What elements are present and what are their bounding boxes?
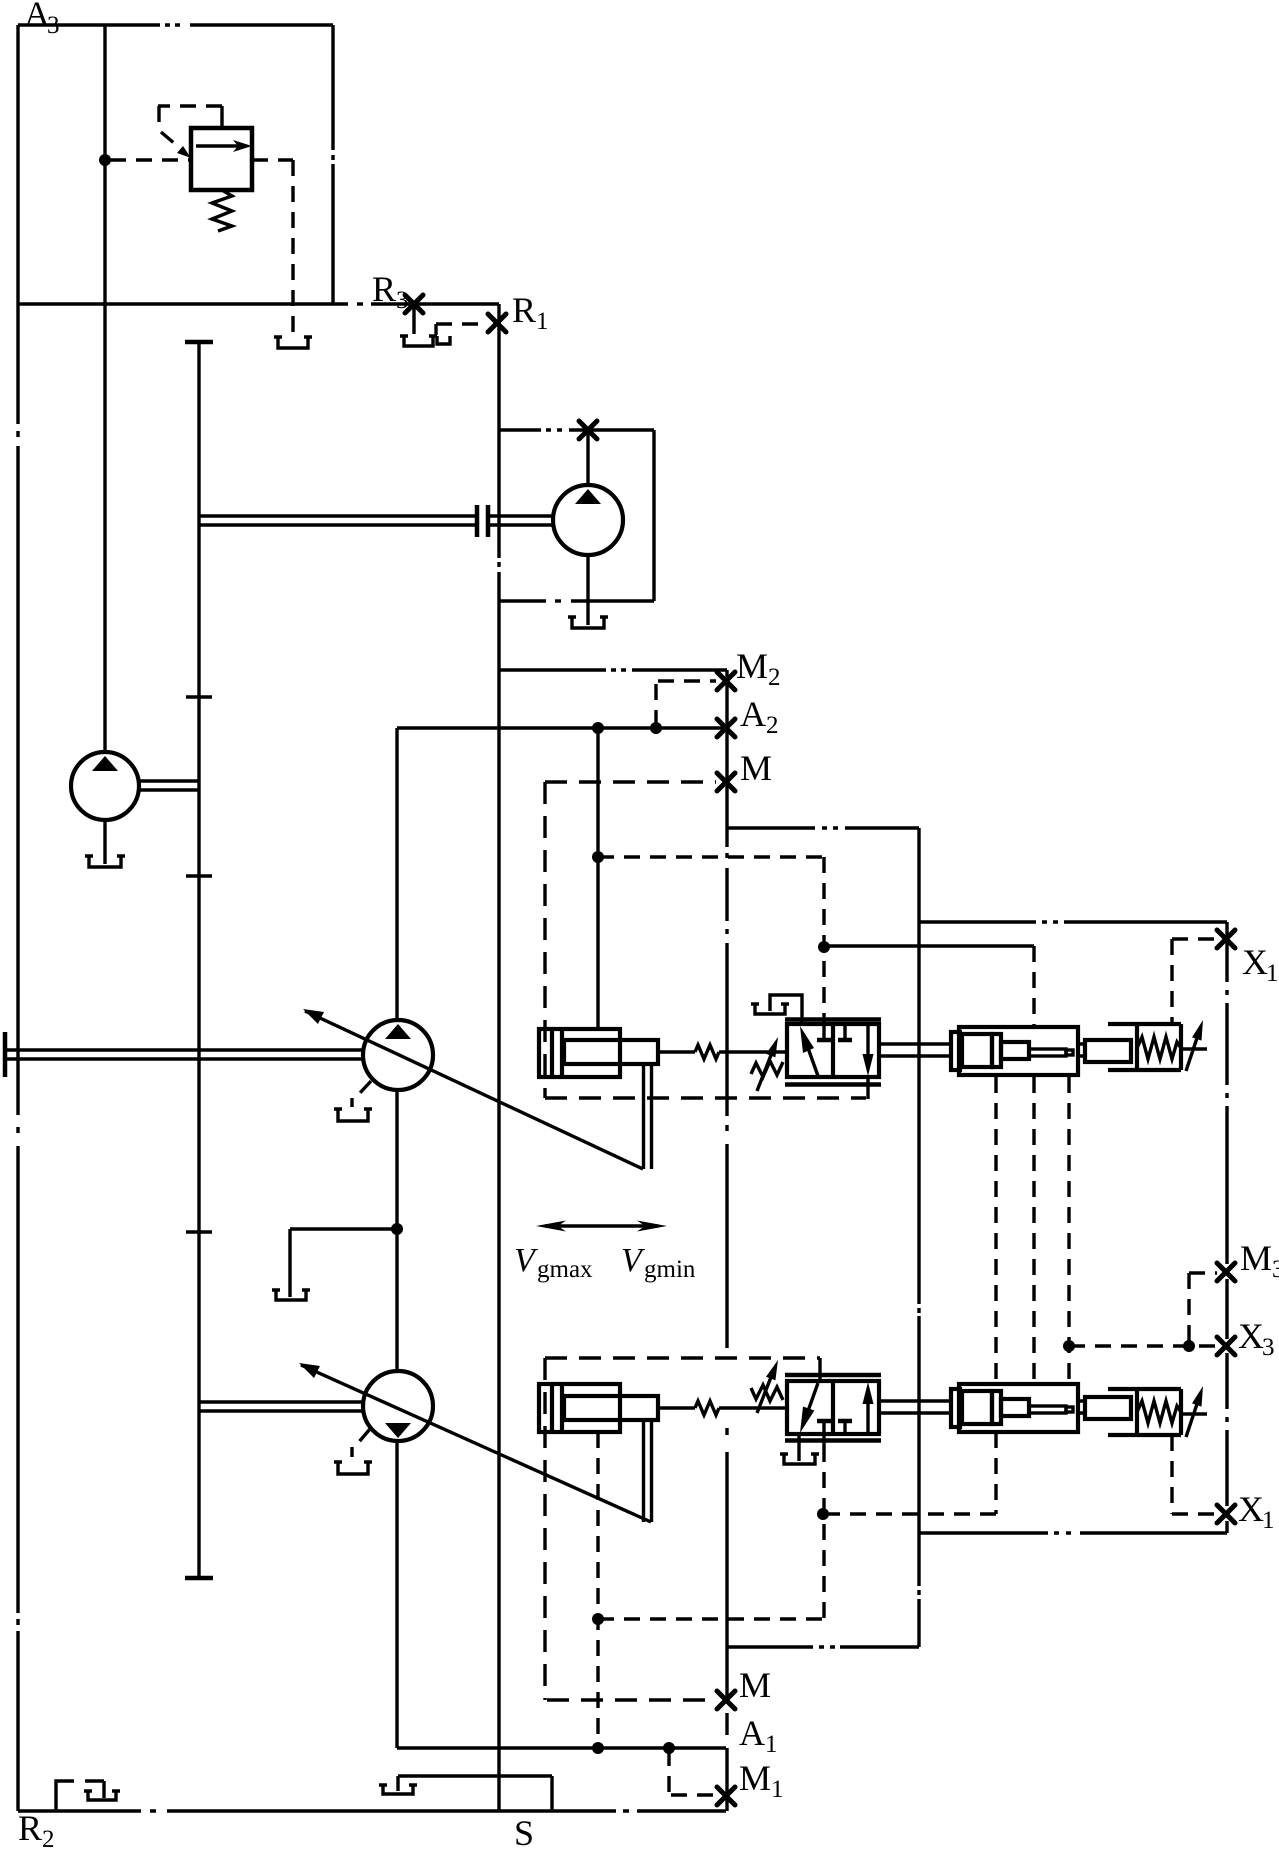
pilot cylinder PC1 rod [1029,1049,1066,1056]
feedback link CY1 double line [644,1064,652,1169]
node junction on pump column [391,1223,403,1235]
spring between CY2 and valve V2 [695,1401,719,1415]
tank T5 pump P1 drain [338,1109,368,1121]
pump P3 charge pump circle [71,752,139,820]
servo cylinder CY2 piston seals [552,1384,562,1432]
dashed X3 line y=1346 [1069,1344,1217,1347]
svg-text:3: 3 [396,287,409,314]
dashed X1 bottom branch [1172,1435,1217,1514]
pilot cylinder PC1 left cap [951,1032,960,1070]
shaft tick 1 [186,695,212,698]
middle enclosure bottom edge y=1647 [727,1645,919,1648]
valve V1 tank arrow (down) [863,1026,874,1099]
valve V2 left spring [751,1385,783,1401]
dashed X1 top branch [1172,939,1217,1024]
valve V1 blocked stub T2 [838,1026,852,1040]
dashed box left edge x=545 [543,782,546,1700]
relief valve RV1 pilot loop [158,106,222,158]
svg-text:M: M [736,646,768,686]
servo cylinder CY2 rod [564,1396,658,1420]
pump P4 aux pump circle [553,485,623,555]
svg-text:R: R [372,269,396,309]
pilot cylinder PC1 second stage [1001,1042,1029,1059]
svg-text:3: 3 [1262,1334,1275,1361]
dashed box inner edge y=1098 [545,1096,866,1099]
svg-text:M: M [1240,1238,1272,1278]
pilot cylinder PC2 body [959,1384,1078,1432]
link rod V2 to PC2 double line [880,1401,951,1413]
wire spring to valve V2 [719,1406,787,1409]
shaft double line P3 to gear line [139,781,199,790]
wire A1 line y=1748 [397,1746,726,1749]
pump P1 variable arrow diagonal [303,1009,643,1169]
wire control pressure y=946 [824,944,1034,947]
shaft end bar top [185,340,213,345]
port cross M [717,773,735,791]
svg-text:M: M [739,1665,771,1705]
link rod PC1 to spring box double line [1078,1044,1085,1056]
pilot cylinder PC2 piston plates [962,1391,992,1424]
valve V1 spool arrow [800,1026,818,1076]
dashed pilot drop to valve V1 [822,857,825,1013]
shaft double line to pump P2 [199,1402,364,1411]
svg-text:M: M [740,748,772,788]
junction dots [592,722,604,734]
horizontal boundary y=304 [18,302,499,305]
pump P3 flow triangle [92,756,118,771]
svg-text:R: R [512,290,536,330]
svg-text:1: 1 [1262,1507,1275,1534]
pump P1 case drain dashed [352,1081,371,1107]
wire CY1 rod to spring [658,1050,695,1053]
port cross M lower [717,1691,735,1709]
right enclosure top edge y=922 [919,920,1227,923]
svg-text:2: 2 [42,1826,55,1851]
link rod PC2 to spring box double line [1078,1401,1085,1413]
spring box SB2 link plate [1085,1397,1131,1419]
aux pump enclosure bottom edge [499,599,654,602]
valve V2 blocked stub T2 [838,1421,852,1434]
aux pump enclosure right edge [652,430,655,601]
pump P2 variable arrow diagonal [299,1363,651,1522]
pilot cylinder PC1 piston plates [962,1034,992,1067]
node junction at relief pilot [99,154,111,166]
wire P4 suction to tank [586,555,589,625]
dashed pilot from valve V2 down [822,1446,825,1619]
servo cylinder CY1 piston seals [552,1029,562,1077]
enclosure left block top edge (phantom line) [18,23,333,26]
servo cylinder CY1 rod [564,1040,658,1064]
valve V2 adjuster arrow [757,1360,778,1413]
svg-text:R: R [18,1808,42,1848]
tank T4 below pump P4 [572,617,604,628]
port cross aux pump top [579,421,597,439]
spring box SB2 plates [1137,1389,1181,1435]
dashed drop to pilot cylinder PC1 [1032,946,1035,1027]
port cross X1 bottom [1217,1505,1235,1523]
spring box SB1 plates [1137,1024,1181,1070]
pump P2 variable displacement circle [363,1371,433,1441]
coupling bars [477,505,488,537]
wire A2 line y=728 [397,726,727,729]
dashed pilot from R1 to tank [436,324,488,335]
relief valve RV1 flow arrow [196,140,252,152]
shaft tick 2 [186,874,212,877]
valve V2 pilot stub T1 [817,1421,831,1446]
spring box SB2 rails [1108,1389,1181,1435]
dashed PC2 drain drop [994,1432,997,1514]
svg-text:gmax: gmax [537,1256,593,1283]
aux pump enclosure top edge [499,428,654,431]
pump P1 flow triangle [385,1024,411,1039]
right enclosure bottom edge y=1533 [919,1531,1227,1534]
wire dashed pilot left of RV1 [110,158,191,161]
wire cylinder feed x=598 lower dashed [596,1432,599,1748]
middle enclosure right edge x=919 [917,828,920,1647]
port cross X3 [1217,1337,1235,1355]
valve V1 body [787,1024,879,1077]
main vertical boundary x=499 [497,304,500,1811]
wire P4 outlet to port cross [586,430,589,485]
wire M dashed line y=782 (box top edge) [545,780,716,783]
svg-text:X: X [1238,1316,1264,1356]
pilot cylinder PC2 rod [1029,1406,1066,1413]
svg-text:X: X [1242,942,1268,982]
valve V2 spool arrow [800,1383,818,1433]
spring box SB2 adjuster arrow [1183,1386,1207,1437]
enclosure bottom edge y=1811 [18,1809,726,1812]
svg-text:S: S [514,1813,534,1851]
relief valve RV1 spring [212,190,232,231]
svg-text:3: 3 [1272,1256,1279,1283]
valve V2 divider [831,1381,835,1434]
S port notch [398,1776,552,1811]
valve V1 divider [831,1024,835,1077]
port cross X1 top [1217,930,1235,948]
svg-text:3: 3 [47,12,60,39]
valve V1 drain pipe to tank [770,995,802,1022]
spring box SB1 spring [1137,1037,1181,1059]
tank T2a below R3 [404,336,433,346]
tank T3 below pump P3 [89,856,121,867]
port cross R1 [488,314,506,332]
port column vertical x=727 (phantom) [725,670,728,1811]
dashed pilot line y=1514 [824,1512,996,1515]
enclosure left edge (phantom line x=18) [16,25,19,1811]
svg-text:gmin: gmin [644,1256,696,1283]
dashed inner pilot line y=1619 [598,1617,823,1620]
port cross R3 [405,295,423,313]
wire A3 riser x=105 [103,25,106,753]
pilot cylinder PC1 body [959,1027,1078,1075]
dashed pilot verticals between pilot cylinders [996,1077,1069,1384]
servo cylinder CY2 body [539,1384,620,1432]
shaft double line to aux pump coupling [199,516,477,525]
tank T8 at R2 [88,1791,116,1800]
R2 drain piping [56,1781,104,1811]
port cross M2 [717,672,735,690]
dashed inner pilot line y=857 [598,855,824,858]
tank T10 below valve V2 [784,1454,815,1464]
shaft end bar bottom [185,1576,213,1581]
spring box SB2 spring [1137,1401,1181,1423]
svg-text:1: 1 [1266,960,1279,987]
wire drain L from pump column to tank [290,1229,397,1297]
svg-text:M: M [739,1758,771,1798]
valve V2 drain pipe to tank [797,1434,800,1461]
svg-text:1: 1 [765,1731,778,1758]
tank T11 drain cup [276,1290,306,1300]
pilot cylinder PC2 left cap [951,1389,960,1427]
wire P3 suction to tank [103,820,106,864]
tank T9 above valve V1 [755,1004,785,1014]
svg-text:1: 1 [536,308,549,335]
valve V1 adjuster arrow [757,1037,778,1091]
valve V2 body [787,1381,879,1434]
tank T2b below R1 pilot [437,336,450,344]
valve V2 tank arrow (up) [863,1382,874,1434]
valve V1 top rail [785,1017,881,1022]
pump P4 flow triangle [575,489,601,504]
valve V1 left spring [751,1061,783,1077]
wire cylinder feed x=598 upper [596,728,599,1029]
top-left box right edge x=333 [331,25,334,304]
valve V1 bottom rail [785,1082,881,1087]
right enclosure right edge x=1227 (phantom) [1225,922,1228,1533]
tank T7 at S port [383,1785,413,1794]
spring box SB1 rails [1108,1024,1181,1070]
spring box SB1 link plate [1085,1040,1131,1062]
wire spring to valve V1 [719,1050,787,1053]
valve V2 top rail [785,1373,881,1378]
valve V2 bottom rail [785,1438,881,1443]
shaft double line coupling to aux pump [488,516,553,525]
pump P2 flow triangle (down) [385,1423,411,1438]
port cross A2 [717,719,735,737]
svg-text:A: A [740,694,766,734]
pump column vertical x=397 [395,728,398,1748]
feedback link CY2 double line [644,1420,652,1522]
pilot cylinder PC2 second stage [1001,1399,1029,1416]
valve V1 pilot stub T1 [817,1013,831,1040]
middle enclosure top edge y=828 [727,826,919,829]
dashed box inner edge y=1358 with drop to valve V2 [545,1358,820,1381]
wire M2 dashed branch [656,681,716,726]
svg-text:X: X [1238,1489,1264,1529]
mechanical shaft line x=199 [197,342,200,1578]
port cross M3 [1217,1263,1235,1281]
shaft tick 3 [186,1230,212,1233]
wire top manifold y=670 [499,668,727,671]
servo cylinder CY1 body [539,1029,620,1077]
port cross M1 [717,1787,735,1805]
tank T1 below RV1 drain [278,337,308,348]
svg-text:2: 2 [768,664,781,691]
link rod V1 to PC1 double line [880,1044,951,1056]
spring box SB1 adjuster arrow [1183,1020,1207,1071]
wire CY2 rod to spring [658,1406,695,1409]
pump P1 variable displacement circle [363,1020,433,1090]
svg-text:A: A [739,1713,765,1753]
svg-text:2: 2 [766,712,779,739]
relief valve RV1 body [191,128,252,190]
prime mover input shaft end bar [3,1032,8,1077]
spring between CY1 and valve V1 [695,1045,719,1059]
Vgmax Vgmin stroke arrow [536,1221,667,1232]
input shaft double line to pump P1 [6,1050,364,1059]
wire dashed drain right of RV1 [252,160,293,334]
wire M1 dashed branch [669,1750,714,1795]
svg-text:1: 1 [771,1776,784,1803]
tank T6 pump P2 drain [338,1462,368,1474]
dashed M3 branch [1189,1273,1217,1346]
pump P2 case drain dashed [352,1429,370,1457]
wire M lower dashed line y=1700 [547,1698,714,1701]
R3 drain pipe [412,305,415,334]
